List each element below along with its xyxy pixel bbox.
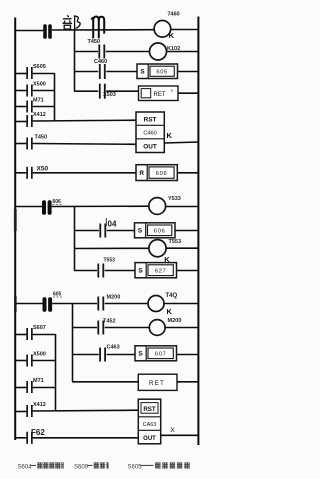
svg-text:C460: C460	[143, 131, 156, 137]
function box RST C460 OUT	[136, 112, 164, 153]
wire T553 coil to right rail	[166, 247, 198, 249]
function box RST C463 OUT (lower)	[138, 399, 160, 444]
wire T40 coil to right rail	[164, 303, 198, 305]
svg-text:606: 606	[53, 199, 62, 205]
wire T553 row to S627 box	[105, 270, 135, 272]
svg-text:S604: S604	[18, 464, 33, 470]
coil M200	[149, 318, 181, 335]
wire block3 main left	[15, 206, 42, 208]
svg-text:S605: S605	[128, 464, 143, 470]
contact C463	[99, 344, 119, 361]
svg-text:RST: RST	[144, 116, 157, 123]
svg-text:C460: C460	[94, 59, 107, 65]
svg-text:X500: X500	[33, 81, 46, 87]
svg-text:X50: X50	[37, 166, 49, 173]
wire C463 row left	[72, 354, 99, 356]
vertical branch wire x74 (rung1 down)	[74, 30, 76, 91]
svg-text:S609: S609	[74, 464, 89, 470]
svg-text:M71: M71	[33, 378, 44, 384]
svg-text:X503: X503	[103, 92, 116, 98]
wire contact M71 lower to bus	[33, 387, 56, 389]
coil Y533	[149, 196, 181, 214]
function box R 606	[136, 165, 177, 181]
wire S606 box to right rail	[175, 230, 198, 232]
wire X412 lower row to RST box	[33, 409, 139, 412]
svg-text:S: S	[138, 228, 143, 235]
svg-text:04: 04	[108, 219, 117, 228]
wire contact S605 to bus	[33, 73, 55, 75]
svg-text:M200: M200	[168, 318, 182, 324]
contact X500 lower	[26, 352, 46, 367]
wire to T553 coil	[74, 247, 149, 249]
wire M200 coil to right rail	[165, 327, 198, 329]
svg-text:627: 627	[155, 269, 166, 275]
svg-text:OUT: OUT	[143, 436, 156, 442]
wire C463 row to S607 box	[107, 354, 136, 356]
function box S 607	[135, 346, 177, 361]
left power rail	[14, 18, 16, 441]
wire Y533 coil to right rail	[166, 206, 199, 208]
coil T460	[154, 12, 180, 41]
contact M71 lower	[26, 378, 43, 393]
svg-text:S: S	[138, 351, 143, 358]
wire T450 row to OUT cell	[33, 143, 136, 146]
contact 04	[99, 219, 117, 237]
wire block4 main left	[15, 303, 43, 305]
svg-text:F62: F62	[31, 428, 45, 437]
svg-text:607: 607	[155, 352, 166, 358]
svg-text:606: 606	[156, 171, 167, 177]
wire contact M71 to bus	[33, 106, 55, 108]
svg-text:T452: T452	[103, 318, 116, 324]
wire F62 row to OUT cell	[33, 437, 139, 439]
contact X500	[26, 81, 46, 96]
vertical branch wire block4 x72	[72, 304, 74, 382]
wire 04 row to S606 box	[107, 230, 135, 232]
wire stub rail to contact X500 lower	[15, 360, 26, 362]
svg-text:7460: 7460	[168, 12, 180, 18]
contact T553	[97, 258, 115, 278]
svg-text:S607: S607	[33, 325, 46, 331]
function box S 627	[135, 263, 177, 278]
wire contact X500 lower to bus	[33, 360, 56, 362]
wire stub rail to contact X412	[15, 121, 26, 123]
svg-text:K: K	[167, 307, 173, 316]
wire R box to right rail	[177, 172, 198, 174]
label 部 (Chinese char on rung 1)	[63, 15, 81, 29]
wire contact X500 to bus	[33, 90, 55, 92]
wire T452 row to M200 coil	[105, 327, 150, 329]
wire 04 row left	[74, 230, 99, 232]
contact X450	[26, 166, 48, 179]
wire S607 box to right rail	[177, 354, 199, 356]
svg-text:C463: C463	[107, 344, 120, 350]
svg-text:RET: RET	[154, 92, 166, 98]
caption text S604/S609/S605 legend	[18, 462, 190, 470]
wire rung1 mid segment	[52, 29, 154, 31]
wire F62 row left	[15, 437, 26, 439]
svg-text:T4Q: T4Q	[166, 293, 178, 299]
svg-text:K: K	[169, 31, 175, 40]
svg-text:X500: X500	[33, 352, 46, 358]
wire rung3 mid	[106, 71, 137, 73]
svg-text:S: S	[138, 268, 143, 275]
scan smudge on left rail	[14, 209, 17, 312]
svg-text:R: R	[139, 170, 144, 177]
parallel bus vertical x55 (lower)	[55, 334, 57, 411]
wire X50 row to R box	[33, 172, 136, 174]
wire T452 row left	[72, 327, 97, 329]
parallel bus vertical x54	[54, 73, 56, 121]
wire T553 row left	[74, 270, 97, 272]
function box RET (lower)	[138, 374, 177, 390]
svg-text:K: K	[167, 131, 173, 140]
wire stub rail to contact M71	[15, 106, 26, 108]
wire rung4 left	[74, 90, 98, 92]
wire stub rail to contact X412 lower	[15, 411, 26, 413]
svg-text:T553: T553	[169, 239, 182, 245]
wire rung4 mid	[106, 90, 138, 92]
contact T452	[97, 318, 115, 334]
contact T450	[88, 39, 106, 58]
svg-text:605: 605	[53, 291, 62, 297]
svg-text:S: S	[140, 69, 145, 76]
step contact S606 (thick bars)	[42, 199, 62, 215]
svg-text:T450: T450	[88, 39, 101, 45]
wire contact S607 to bus	[33, 334, 56, 336]
wire rung4 to right rail	[178, 92, 198, 94]
wire rung2 left	[74, 51, 98, 53]
wire stub rail to contact X500	[15, 90, 26, 92]
wire S627 box to right rail	[177, 270, 199, 272]
wire block3 main mid	[52, 205, 149, 207]
wire stub rail to contact S605	[15, 73, 26, 75]
function box S 606	[135, 223, 176, 238]
svg-text:CA63: CA63	[143, 422, 157, 428]
svg-text:S605: S605	[33, 64, 46, 70]
wire rung2 mid	[106, 51, 150, 53]
wire rung3 left	[74, 71, 98, 73]
svg-text:X: X	[170, 427, 175, 434]
wire rung1 left segment	[15, 30, 43, 32]
contact X412 lower	[26, 402, 46, 417]
svg-text:T450: T450	[35, 135, 48, 141]
svg-text:606: 606	[154, 229, 165, 235]
vertical branch wire block3 x74	[74, 207, 76, 271]
contact C460	[94, 59, 107, 79]
contact S607	[26, 325, 46, 340]
svg-text:RST: RST	[143, 406, 156, 413]
wire block4 main mid	[52, 303, 97, 305]
contact S605	[26, 64, 46, 79]
function box RET	[139, 86, 179, 101]
contact X412	[26, 112, 46, 127]
svg-text:RET: RET	[149, 380, 165, 387]
label X at RST box output	[170, 427, 175, 434]
contact T450 (lower)	[26, 135, 47, 150]
svg-text:M71: M71	[33, 97, 44, 103]
svg-text:T553: T553	[104, 258, 116, 264]
tick mark before 04 label	[105, 218, 107, 226]
wire X412 row to RST box	[33, 119, 136, 122]
wire T450 bottom row	[15, 143, 26, 145]
contact M200	[97, 294, 120, 310]
wire rung2 to right rail	[167, 51, 199, 53]
coil K102	[150, 43, 181, 60]
contact (thick bars) on rung 1	[43, 24, 52, 39]
wire stub rail to contact S607	[15, 334, 26, 336]
svg-text:X412: X412	[33, 112, 46, 118]
wire RST2 box to right rail	[161, 434, 199, 436]
contact M71	[26, 97, 43, 112]
wire rung1 to right rail	[171, 29, 199, 31]
coil T40	[148, 293, 178, 316]
svg-text:Y533: Y533	[168, 196, 181, 202]
wire RST box to right rail	[164, 142, 198, 143]
symbol m (contact glyph on rung 1)	[91, 17, 104, 39]
right power rail	[197, 17, 199, 446]
svg-text:605: 605	[156, 70, 167, 76]
contact X503	[99, 84, 116, 99]
wire M200 to T40 coil	[105, 303, 149, 305]
function box S 605	[137, 64, 178, 79]
label K at RST box output	[167, 131, 173, 140]
wire RET2 box to right rail	[177, 381, 198, 383]
svg-text:OUT: OUT	[143, 143, 157, 150]
contact F62	[26, 428, 45, 444]
wire to RET2 box	[72, 381, 138, 383]
svg-text:M200: M200	[107, 294, 121, 300]
coil T553	[149, 239, 181, 264]
wire rung3 to right rail	[178, 71, 199, 73]
wire X50 row left	[15, 172, 26, 174]
wire stub rail to contact M71 lower	[15, 387, 26, 389]
step contact S605 (thick bars)	[43, 291, 63, 311]
svg-text:X412: X412	[33, 402, 46, 408]
